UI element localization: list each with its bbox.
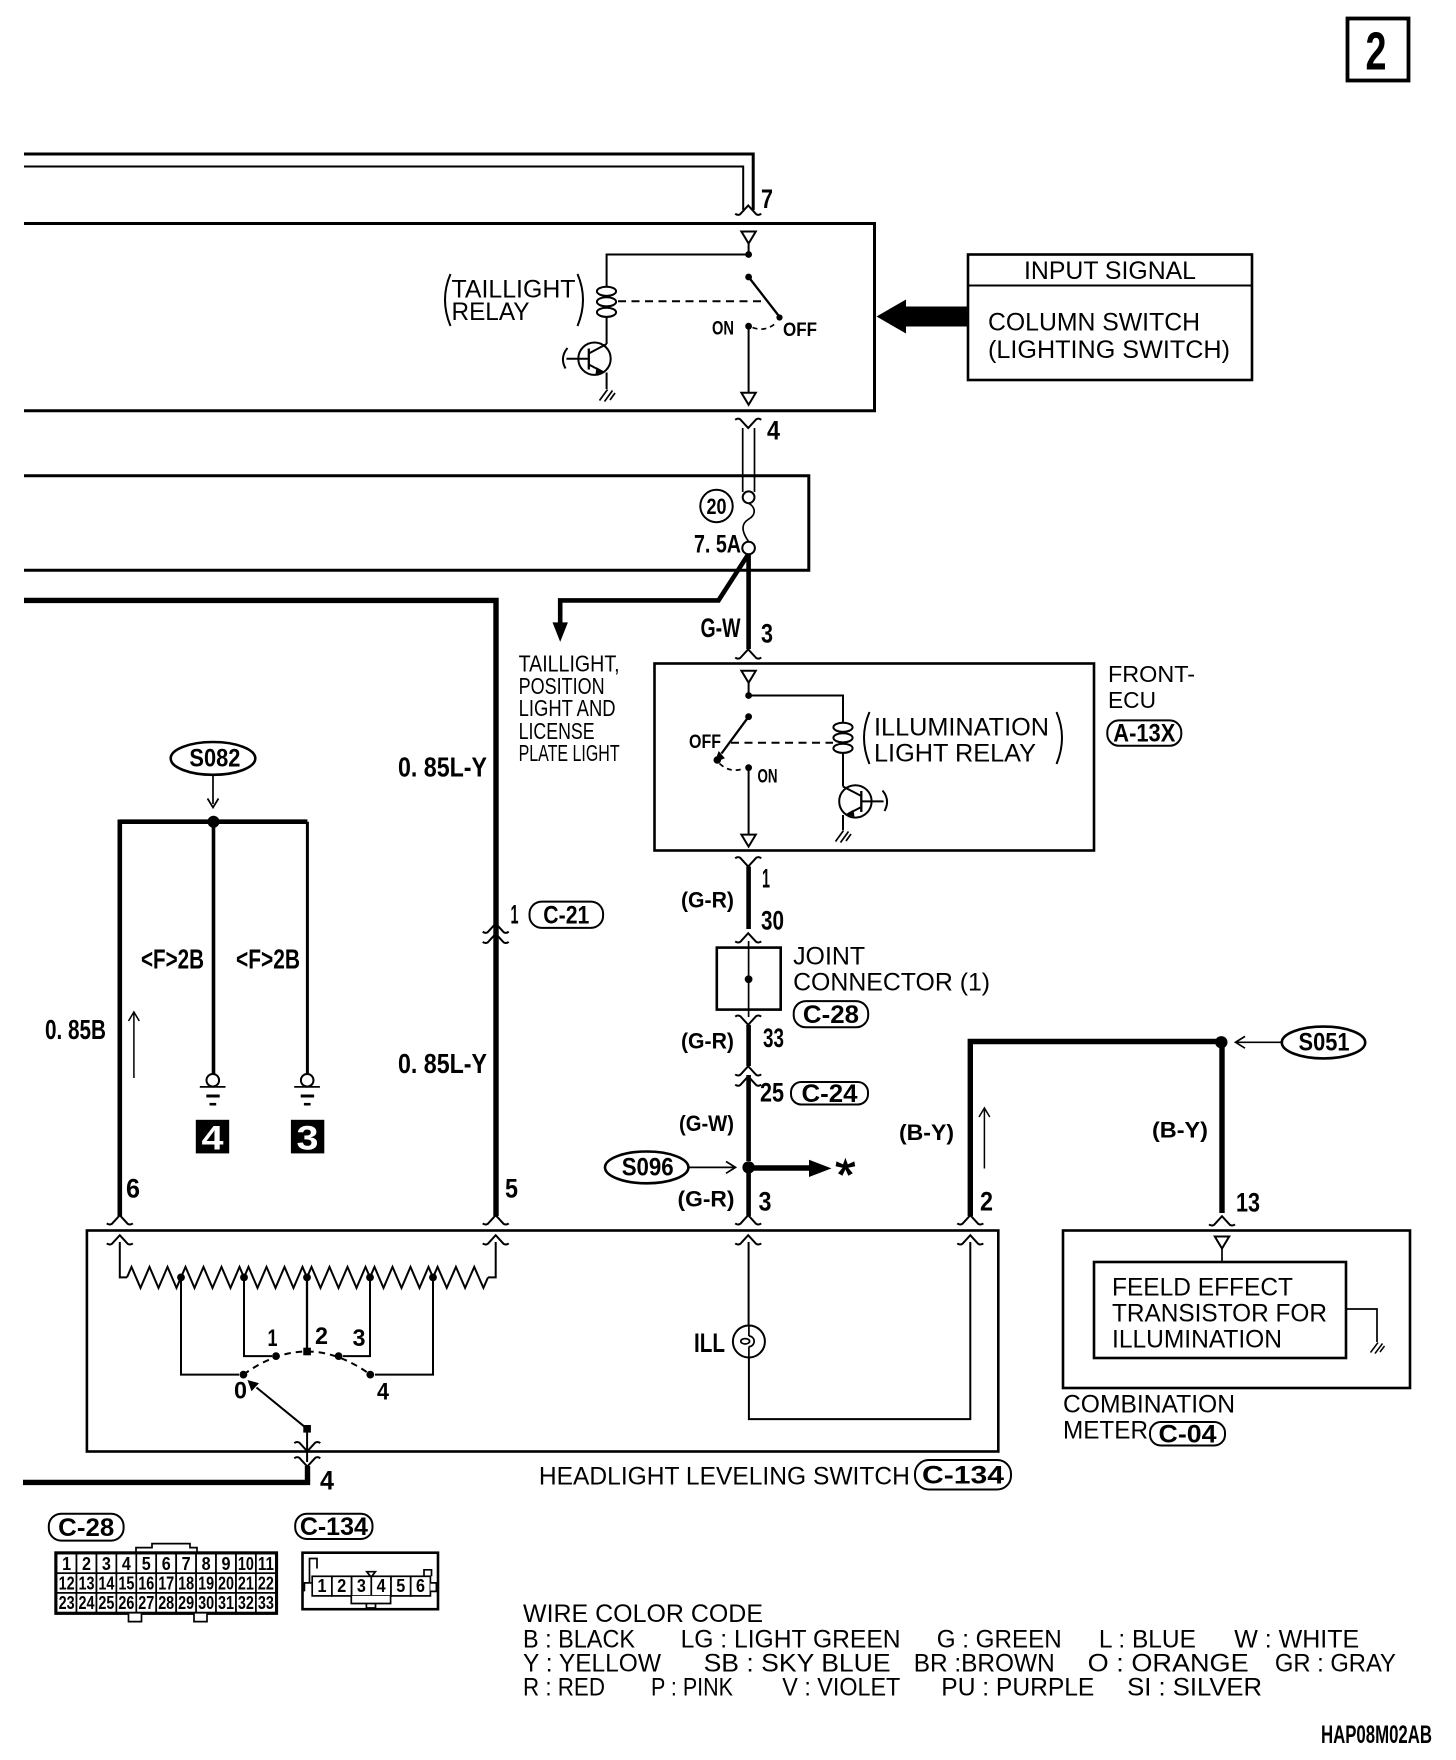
svg-text:17: 17 [158,1574,174,1594]
front-ECU box [655,664,1095,851]
svg-text:4: 4 [122,1554,131,1574]
svg-text:2: 2 [980,1187,993,1217]
transistor Q2 (illumination relay driver) [839,785,887,817]
wire Q1 emitter to ground [606,373,608,390]
svg-text:6: 6 [126,1174,140,1204]
svg-text:LIGHT RELAY: LIGHT RELAY [874,740,1036,768]
svg-text:SI : SILVER: SI : SILVER [1127,1674,1262,1702]
svg-text:21: 21 [238,1574,254,1594]
ground (illumination relay, chassis hatch) [836,831,852,843]
svg-text:1: 1 [318,1576,327,1596]
svg-text:6: 6 [162,1554,171,1574]
svg-text:4: 4 [767,416,780,446]
svg-text:29: 29 [178,1593,194,1613]
position dot 1 [272,1352,280,1360]
svg-text:2: 2 [1366,22,1387,82]
tag C-134 (pinout drawing) [295,1514,372,1539]
relay coil L1 (taillight relay) [597,287,616,317]
splice symbol S082 [171,742,256,775]
svg-text:<F>2B: <F>2B [141,944,204,975]
wire (G-W) C-24 to splice S096 [746,1075,751,1161]
wire pin3 to relay common (ECU) [748,683,750,695]
ECU switch arm (shown toward OFF) [722,717,749,754]
svg-text:C-134: C-134 [300,1513,368,1541]
svg-text:3: 3 [357,1576,366,1596]
svg-text:(LIGHTING SWITCH): (LIGHTING SWITCH) [988,336,1230,364]
svg-text:WIRE COLOR CODE: WIRE COLOR CODE [523,1600,763,1628]
connector pin 4 chevron [735,419,761,428]
svg-text:V : VIOLET: V : VIOLET [782,1674,900,1702]
wire (G-R) joint to C-24 [746,1025,751,1066]
node ON contact dot (ECU) [745,764,752,771]
svg-text:22: 22 [258,1574,274,1594]
svg-text:31: 31 [218,1593,234,1613]
tag C-04 [1150,1422,1225,1446]
svg-text:C-134: C-134 [922,1461,1004,1489]
node switch common junction [745,251,752,258]
wire ON contact down [748,326,750,392]
svg-text:COMBINATION: COMBINATION [1063,1391,1235,1419]
ground symbol 4 [200,1074,226,1104]
svg-text:CONNECTOR (1): CONNECTOR (1) [793,969,990,997]
svg-text:9: 9 [222,1554,231,1574]
svg-text:2: 2 [337,1576,346,1596]
dashed selector arc [243,1352,370,1375]
tag C-28 (pinout table) [49,1514,124,1541]
svg-text:27: 27 [138,1593,154,1613]
FET block box [1094,1262,1346,1358]
ground ref box 4 [196,1120,229,1154]
svg-text:1: 1 [268,1325,278,1352]
svg-text:C-28: C-28 [58,1514,114,1542]
wire tap d to position 3 [343,1277,370,1356]
svg-text:3: 3 [353,1325,366,1352]
svg-text:ECU: ECU [1108,687,1156,713]
svg-text:4: 4 [377,1379,390,1406]
wiper arm with arrowhead [257,1388,308,1429]
svg-text:C-04: C-04 [1159,1420,1217,1448]
svg-text:S096: S096 [622,1154,674,1182]
wire pin13 to FET box [1221,1249,1223,1263]
wire common to coil top [607,255,749,287]
wire to ground 4 [212,822,216,1074]
label (ILLUMINATION LIGHT RELAY) left paren [864,712,870,764]
svg-text:(G-W): (G-W) [679,1111,734,1136]
node OFF contact dot (ECU) [714,756,722,764]
connector C-21 double chevron [483,924,509,933]
ground (taillight relay, chassis hatch) [600,390,616,402]
svg-text:16: 16 [138,1574,154,1594]
svg-text:28: 28 [158,1593,174,1613]
connector pin 2 chevrons (leveling switch) [957,1215,983,1224]
wire pin3 to ILL lamp [748,1242,750,1326]
svg-text:0. 85L-Y: 0. 85L-Y [398,752,487,783]
wire FET to ground [1346,1309,1377,1342]
connector pin 3 chevron (front-ECU) [735,649,761,658]
svg-text:ILL: ILL [694,1328,725,1358]
wire tap e to position 4 [375,1277,433,1374]
svg-text:(G-R): (G-R) [681,1029,734,1054]
position dot 4 [366,1371,374,1379]
connector pin 6 chevrons (leveling switch) [107,1215,133,1224]
svg-text:23: 23 [59,1593,75,1613]
current arrow up (B-Y) [979,1108,990,1169]
svg-text:11: 11 [258,1554,274,1574]
svg-text:(B-Y): (B-Y) [1152,1118,1208,1143]
dashed throw arc ON-OFF [753,322,778,329]
svg-text:ON: ON [758,767,778,788]
connector pin 3 chevrons (leveling switch) [735,1215,761,1224]
svg-text:4: 4 [202,1120,224,1158]
joint connector (1) body [717,948,781,1010]
svg-text:HAP08M02AB: HAP08M02AB [1321,1721,1432,1749]
arrow S051 to splice node [1236,1036,1282,1048]
svg-text:FEELD EFFECT: FEELD EFFECT [1112,1274,1293,1302]
input signal box [968,255,1252,381]
label (ILLUMINATION LIGHT RELAY) right paren [1057,712,1063,764]
svg-text:3: 3 [102,1554,111,1574]
svg-text:JOINT: JOINT [793,943,865,971]
terminal triangle pin 4 inside relay box [741,393,755,405]
svg-text:(B-Y): (B-Y) [899,1120,954,1145]
svg-text:0: 0 [234,1378,247,1405]
arrow S096 to splice node [689,1162,736,1174]
terminal triangle pin 1 inside ECU [741,835,755,847]
input signal arrow (column switch to relay) [877,300,969,334]
wire (B-Y) bus [970,1042,1222,1217]
connector C-28 pinout table [136,1544,197,1554]
terminal triangle pin 13 inside meter [1215,1237,1229,1249]
svg-text:3: 3 [761,619,773,649]
svg-text:5: 5 [142,1554,151,1574]
connector C-134 pinout drawing [303,1553,439,1610]
svg-text:TRANSISTOR FOR: TRANSISTOR FOR [1112,1300,1327,1328]
dashed link contact to coil (ECU) [731,742,833,744]
wire G-W fuse to front-ECU [746,554,751,649]
ground (combination meter, chassis hatch) [1371,1343,1385,1354]
label (TAILLIGHT RELAY) left paren [445,274,451,326]
svg-text:0. 85L-Y: 0. 85L-Y [398,1048,487,1079]
connector pin 33 chevron [735,1015,761,1024]
svg-text:(G-R): (G-R) [681,888,734,913]
svg-text:R : RED: R : RED [523,1674,605,1702]
svg-text:30: 30 [761,906,784,936]
svg-text:20: 20 [707,494,727,519]
ground ref box 3 [291,1120,324,1154]
node splice S051 junction [1215,1036,1227,1048]
tag C-134 (leveling switch) [915,1460,1011,1490]
wire pin5 inside to resistor chain [488,1242,496,1277]
svg-text:1: 1 [511,900,519,930]
svg-text:13: 13 [79,1574,95,1594]
wire coil bottom to Q2 collector [842,753,844,787]
node ON contact dot [745,323,752,330]
switch arm (shown OFF) [749,277,779,316]
page number box 2 [1348,19,1409,81]
svg-text:<F>2B: <F>2B [236,944,300,975]
fuse box (open left) [24,476,809,571]
wire ON contact down (ECU) [748,768,750,835]
wire (G-R) splice to leveling switch [746,1168,751,1216]
wire leveling pin4 feed (thick bottom) [23,1466,308,1482]
current arrow up (0.85B) [129,1012,140,1078]
ECU switch upper contact dot [745,713,752,720]
svg-text:20: 20 [218,1574,234,1594]
label asterisk [836,1158,856,1176]
wire Q2 emitter to ground [842,815,844,830]
svg-text:3: 3 [297,1120,319,1158]
wire 0.85B down leg [118,820,123,1217]
svg-text:S082: S082 [189,745,240,773]
tag C-21 [530,902,604,928]
svg-text:4: 4 [320,1466,334,1496]
node resistor tap a [177,1274,185,1282]
svg-text:13: 13 [1236,1188,1260,1218]
svg-text:5: 5 [396,1576,405,1596]
svg-text:COLUMN SWITCH: COLUMN SWITCH [988,309,1200,337]
wire splice to asterisk branch [749,1165,810,1170]
svg-text:GR : GRAY: GR : GRAY [1275,1650,1396,1678]
svg-text:30: 30 [198,1593,214,1613]
tag A-13X [1107,720,1181,745]
arrowhead asterisk branch [809,1160,832,1177]
svg-text:24: 24 [79,1593,95,1613]
svg-text:4: 4 [377,1576,386,1596]
fuse number circle 20 [700,490,732,522]
svg-text:7: 7 [182,1554,191,1574]
node resistor tap b [240,1274,248,1282]
connector pin 4 chevrons (leveling switch out) [294,1442,320,1451]
svg-text:6: 6 [416,1576,425,1596]
svg-text:OFF: OFF [783,320,817,341]
svg-text:0. 85B: 0. 85B [45,1014,106,1045]
wire coil bottom to Q1 collector [606,318,608,345]
svg-text:(G-R): (G-R) [678,1187,735,1212]
dashed throw arc OFF-ON (ECU) [720,764,745,771]
wire (G-R) ECU to C-28 joint [746,867,751,930]
combination meter box [1063,1231,1410,1389]
svg-text:14: 14 [98,1574,114,1594]
node splice S096 junction [742,1161,754,1173]
wire wiper to pin 4 [306,1432,308,1462]
terminal triangle pin 3 inside ECU [741,671,755,683]
wire pin6 inside to resistor chain [120,1242,127,1277]
switch arm end dot [776,314,782,320]
svg-text:12: 12 [59,1574,75,1594]
svg-text:ILLUMINATION: ILLUMINATION [1112,1326,1282,1354]
svg-text:10: 10 [238,1554,254,1574]
wire pin30 into joint connector [748,941,750,1017]
wire tap a to position 0 [181,1277,239,1374]
svg-text:1: 1 [762,864,770,894]
svg-text:18: 18 [178,1574,194,1594]
svg-text:15: 15 [118,1574,134,1594]
wire ILL lamp return loop [749,1242,970,1419]
svg-text:G-W: G-W [701,613,741,643]
joint connector internal node [745,975,753,983]
connector pin 1 chevron (ECU out) [735,857,761,866]
headlight leveling switch box [87,1231,998,1452]
tag C-24 [791,1082,868,1105]
resistor chain (leveling rheostat) [127,1267,181,1288]
svg-text:32: 32 [238,1593,254,1613]
svg-text:C-24: C-24 [802,1080,858,1108]
wire feed from page 1 (outer) [24,154,753,210]
dashed link coil to contact [618,300,766,302]
ECU switch arm arrowhead [715,751,725,763]
wire tap c to position 2 [306,1277,308,1348]
double wire pin4 to fuse [743,428,755,492]
position dot 3 [335,1352,343,1360]
svg-text:INPUT SIGNAL: INPUT SIGNAL [1024,257,1196,285]
label (TAILLIGHT RELAY) right paren [578,274,584,326]
svg-text:S051: S051 [1299,1029,1350,1057]
svg-text:19: 19 [198,1574,214,1594]
node S082 ground bus junction [208,816,220,828]
splice symbol S096 [605,1152,688,1184]
svg-text:25: 25 [760,1078,784,1108]
relay coil L2 (illumination light relay) [833,723,852,753]
svg-text:1: 1 [62,1554,71,1574]
svg-text:FRONT-: FRONT- [1108,661,1195,687]
node ECU switch common [745,692,752,699]
position dot 2 (square) [303,1348,311,1356]
svg-text:A-13X: A-13X [1113,720,1175,748]
wire ground bus [120,819,308,824]
svg-text:2: 2 [315,1323,328,1350]
transistor Q1 (taillight relay driver) [563,343,611,375]
ground symbol 3 [294,1074,320,1104]
connector pin 13 chevron (combination meter) [1209,1216,1235,1225]
wire branch fuse to taillight feed [560,556,747,625]
connector C-24 double chevron [735,1066,761,1075]
svg-text:3: 3 [759,1187,772,1217]
svg-text:33: 33 [258,1593,274,1613]
svg-text:METER: METER [1063,1417,1148,1445]
svg-text:8: 8 [202,1554,211,1574]
svg-text:7. 5A: 7. 5A [694,531,741,559]
node resistor tap c [303,1274,311,1282]
svg-text:7: 7 [761,184,773,214]
svg-text:HEADLIGHT LEVELING SWITCH: HEADLIGHT LEVELING SWITCH [539,1463,910,1491]
svg-text:P : PINK: P : PINK [651,1674,733,1702]
node resistor tap d [366,1274,374,1282]
arrow S082 to ground bus [208,776,219,808]
wiper pivot (square) [303,1425,311,1433]
wire pin7 to switch common [748,244,750,255]
svg-text:PU : PURPLE: PU : PURPLE [941,1674,1094,1702]
svg-text:2: 2 [82,1554,91,1574]
wire 0.85L-Y feed (from fuse box) [24,600,496,1216]
connector pin 7 chevron [735,206,761,215]
tag C-28 (joint connector) [794,1001,869,1027]
svg-text:OFF: OFF [689,732,721,753]
svg-text:33: 33 [763,1023,784,1053]
svg-text:RELAY: RELAY [452,298,530,326]
lamp ILL (illumination bulb) [733,1326,765,1358]
svg-text:5: 5 [505,1174,518,1204]
arrowhead taillight feed [553,622,568,642]
node resistor tap e [429,1274,437,1282]
svg-text:PLATE LIGHT: PLATE LIGHT [519,740,620,766]
svg-text:25: 25 [98,1593,114,1613]
position dot 0 [240,1371,248,1379]
taillight relay box (column switch, open left) [24,224,875,411]
svg-text:ON: ON [712,318,734,339]
terminal triangle pin 7 inside relay box [741,232,755,244]
connector pin 5 chevrons (leveling switch) [483,1215,509,1224]
svg-text:ILLUMINATION: ILLUMINATION [874,714,1049,742]
svg-text:C-21: C-21 [543,901,589,929]
svg-text:26: 26 [118,1593,134,1613]
wire common to illumination coil [749,696,843,723]
switch contact arm dot [745,274,752,281]
wire tap b to position 1 [244,1277,272,1356]
wire feed from page 1 (inner) [24,167,743,211]
svg-text:C-28: C-28 [803,1001,859,1029]
fuse F20 7.5A symbol [743,491,755,503]
wire to ground 3 [306,822,309,1074]
splice symbol S051 [1282,1027,1365,1059]
connector pin 30 chevron [735,933,761,942]
